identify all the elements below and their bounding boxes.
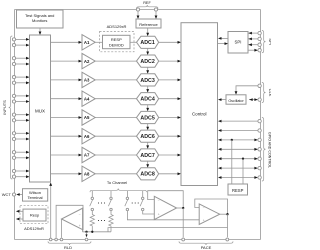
wire MUX to A7	[51, 154, 79, 156]
wire IN6P to MUX	[16, 132, 27, 134]
wire ADC7 to Control	[159, 154, 178, 156]
svg-text:ADC2: ADC2	[140, 59, 154, 65]
switch S1	[91, 197, 93, 199]
pin IN8N	[12, 175, 15, 178]
svg-text:WCT: WCT	[2, 192, 12, 197]
pin SPI3	[258, 43, 261, 46]
svg-text:Oscillator: Oscillator	[228, 99, 244, 103]
wire ADC1 to Control	[159, 41, 178, 43]
wire IN3P to MUX	[16, 76, 27, 78]
pin IN7N	[12, 156, 15, 159]
svg-text:Terminal: Terminal	[27, 195, 42, 200]
wire ADC3 to ADC4 (ref chain)	[147, 86, 149, 89]
op-amp A5	[82, 110, 95, 125]
svg-text:A1: A1	[84, 40, 90, 45]
pin IN4N	[12, 100, 15, 103]
adc ADC4	[137, 93, 159, 105]
svg-text:A6: A6	[84, 134, 90, 139]
svg-text:ADC5: ADC5	[140, 115, 154, 121]
wire ADC5 to Control	[159, 117, 178, 119]
wire SPI pin 3	[248, 44, 258, 46]
wire A8 to ADC8	[95, 173, 136, 175]
pin IN2N	[12, 62, 15, 65]
wire A5 to ADC5	[95, 117, 136, 119]
wire MUX to A1	[51, 41, 79, 43]
svg-text:ADC4: ADC4	[140, 97, 154, 103]
wire IN6N to MUX	[16, 138, 27, 140]
wire SPI pin 1	[248, 32, 258, 34]
brace INPUTS	[9, 36, 13, 179]
pin IN4P	[12, 94, 15, 97]
svg-text:Reference: Reference	[139, 22, 158, 27]
wire GPIO row 7	[221, 177, 255, 179]
wire SPI to Control	[221, 37, 228, 39]
wire IN8N to MUX	[16, 176, 27, 178]
pin IN5N	[12, 119, 15, 122]
wire A4 to ADC4	[95, 98, 136, 100]
svg-text:A8: A8	[84, 172, 90, 177]
pin IN2P	[12, 57, 15, 60]
wire GPIO row 6	[221, 167, 255, 169]
svg-text:RESP: RESP	[111, 37, 122, 42]
svg-text:REF: REF	[143, 1, 151, 5]
wire RLD inv node to pin	[86, 232, 88, 235]
svg-text:GPIO AND CONTROL: GPIO AND CONTROL	[268, 132, 271, 168]
wire RLD network to amp input	[82, 208, 84, 232]
wire PACE2 output	[220, 213, 228, 215]
wire RLD output	[61, 219, 63, 238]
adc ADC3	[137, 74, 159, 86]
wire MUX to A6	[51, 135, 79, 137]
wire S2 to R2	[110, 211, 112, 214]
adc ADC5	[137, 111, 159, 123]
brace RLD	[48, 241, 91, 245]
dots between S3 and S4	[132, 202, 133, 203]
wire IN4P to MUX	[16, 95, 27, 97]
control block	[181, 23, 218, 186]
svg-text:INPUTS: INPUTS	[2, 100, 7, 115]
wire SPI pin 2	[248, 38, 258, 40]
wire ADC6 to Control	[159, 135, 178, 137]
pin SPI4	[258, 49, 261, 52]
svg-text:−: −	[79, 213, 81, 217]
pin GPIO5	[258, 157, 261, 160]
wire MUX to A4	[51, 98, 79, 100]
svg-text:ADC3: ADC3	[140, 78, 154, 84]
pin IN1N	[12, 44, 15, 47]
svg-text:+: +	[203, 219, 205, 223]
wire ADC8 to Control	[159, 173, 178, 175]
pin SPI2	[258, 37, 261, 40]
wire S3 to PACE2 +	[127, 211, 199, 220]
op-amp A6	[82, 129, 95, 144]
wire A6 to ADC6	[95, 135, 136, 137]
wire PACE1 out to pin	[182, 208, 184, 237]
svg-text:A7: A7	[84, 153, 90, 158]
junction on GPIO row 3	[231, 139, 233, 141]
svg-text:PACE: PACE	[201, 245, 212, 250]
pin CLKIN	[258, 84, 261, 87]
op-amp A8	[82, 166, 95, 181]
wire Control to SPI	[218, 43, 226, 45]
pin GPIO6	[258, 166, 261, 169]
pin REFP	[136, 8, 139, 11]
wire ADC4 to Control	[159, 98, 178, 100]
dashed box ADS129xR (resp)	[20, 206, 48, 224]
wire test signals to MUX	[39, 28, 41, 32]
svg-text:Monitors: Monitors	[32, 18, 47, 23]
pin IN1P	[12, 38, 15, 41]
svg-text:A5: A5	[84, 115, 90, 120]
wire RLD network to pace bus	[108, 228, 228, 232]
wire Resp out P	[19, 210, 23, 212]
wire R2 to RLD node	[110, 227, 112, 232]
wire MUX to A5	[51, 117, 79, 119]
resistor R1	[90, 214, 94, 228]
wire IN7P to MUX	[16, 151, 27, 153]
wire A2 to ADC2	[95, 60, 136, 62]
adc ADC8	[137, 168, 159, 180]
mux MUX	[30, 35, 51, 182]
svg-text:Resp: Resp	[30, 213, 40, 218]
wire GPIO row 2	[221, 130, 258, 132]
brace GPIO	[262, 118, 266, 182]
pin IN3P	[12, 76, 15, 79]
wire GPIO row 3	[221, 139, 255, 141]
op-amp A2	[82, 53, 95, 68]
svg-text:A2: A2	[84, 59, 90, 64]
resp block (bottom-left)	[23, 209, 46, 221]
wire A1 to RESP DEMOD	[95, 41, 102, 43]
junction RLD inv node	[85, 231, 87, 233]
svg-text:Control: Control	[192, 111, 207, 116]
resp block (right)	[228, 184, 248, 195]
wire REFN to Reference	[155, 11, 157, 15]
pin IN5P	[12, 113, 15, 116]
op-amp A7	[82, 147, 95, 162]
wire A3 to ADC3	[95, 79, 136, 81]
pin GPIO4	[258, 148, 261, 151]
wire GPIO row 4	[221, 148, 255, 150]
op-amp PACE1	[154, 196, 176, 219]
wire IN4N to MUX	[16, 101, 27, 103]
pin REFN	[154, 8, 157, 11]
resistor R2	[109, 214, 113, 228]
pin IN3N	[12, 81, 15, 84]
svg-text:DEMOD: DEMOD	[109, 42, 124, 47]
svg-text:+: +	[79, 224, 81, 228]
op-amp A1	[82, 35, 95, 50]
svg-text:+: +	[158, 213, 160, 217]
wire A7 to ADC7	[95, 154, 136, 156]
svg-text:A4: A4	[84, 96, 90, 101]
svg-text:ADC7: ADC7	[140, 153, 154, 159]
op-amp PACE2	[199, 204, 220, 225]
wire IN3N to MUX	[16, 82, 27, 84]
oscillator block	[226, 95, 246, 104]
spi block	[228, 32, 248, 54]
pin RLD1	[49, 238, 52, 241]
wire PACE1 loop	[148, 191, 184, 208]
wire IN1N to MUX	[16, 44, 27, 46]
wire Oscillator to Control	[221, 99, 226, 101]
wire RLD network bus	[83, 231, 112, 233]
svg-text:RESP: RESP	[232, 188, 244, 193]
junction R1 bottom	[91, 231, 93, 233]
pin GPIO2	[258, 129, 261, 132]
wire MUX to A8	[51, 173, 79, 175]
wire MUX to A2	[51, 60, 79, 62]
wire Resp out N	[19, 218, 23, 220]
wire PACE2 out to pin	[227, 214, 229, 237]
switch S3	[126, 197, 128, 199]
svg-text:SPI: SPI	[235, 40, 242, 45]
pin SPI1	[258, 31, 261, 34]
svg-text:A3: A3	[84, 78, 90, 83]
dashed box ADS129xR (resp demod)	[100, 32, 135, 52]
svg-text:SPI: SPI	[268, 38, 271, 44]
svg-text:ADS129xR: ADS129xR	[107, 24, 127, 29]
wire ADC4 to ADC5 (ref chain)	[147, 105, 149, 108]
pin GPIO1	[258, 119, 261, 122]
dots between S1 and S2	[98, 202, 99, 203]
brace CLK	[262, 83, 266, 103]
pin PACE1	[182, 238, 185, 241]
junction PACE1 out	[182, 207, 184, 209]
junction PACE2 out	[226, 213, 228, 215]
wire ADC7 to ADC8 (ref chain)	[147, 161, 149, 164]
wilson terminal block	[23, 189, 48, 201]
switch S4	[142, 197, 144, 199]
adc ADC7	[137, 149, 159, 161]
wire SPI pin 4 (DOUT)	[248, 49, 255, 51]
wire IN1P to MUX	[16, 38, 27, 40]
pin IN6P	[12, 132, 15, 135]
wire IN5N to MUX	[16, 119, 27, 121]
svg-text:−: −	[158, 199, 160, 203]
pin RLDOUT	[60, 238, 63, 241]
wire ADC1 to ADC2 (ref chain)	[147, 48, 149, 51]
wire GPIO row 5 to RESP	[242, 159, 244, 184]
wire ADC3 to Control	[159, 79, 178, 81]
wire RLD loop	[56, 205, 83, 238]
wire S1 to R1	[91, 211, 93, 214]
wire ADC6 to ADC7 (ref chain)	[147, 142, 149, 145]
pin GPIO7	[258, 176, 261, 179]
pin IN6N	[12, 137, 15, 140]
wire switch S1 stub	[91, 191, 93, 197]
brace SPI	[262, 31, 266, 53]
wire GPIO row 3 to RESP	[231, 140, 233, 184]
wire IN5P to MUX	[16, 114, 27, 116]
wire GPIO row 1	[221, 120, 258, 122]
wire switch S2 stub	[110, 191, 112, 197]
pin RLD2	[55, 238, 58, 241]
wire MUX to A3	[51, 79, 79, 81]
adc ADC1	[137, 36, 159, 48]
switch S2	[110, 197, 112, 199]
op-amp RLD	[62, 208, 84, 230]
wire CLKIN to Oscillator	[236, 86, 258, 92]
svg-text:MUX: MUX	[35, 108, 45, 113]
wire PACE2 loop	[195, 199, 228, 214]
svg-text:ADC6: ADC6	[140, 134, 154, 140]
chip boundary rail (pin frame)	[15, 9, 261, 11]
resp demod block	[103, 35, 131, 48]
wire S4 to PACE1 +	[143, 211, 155, 214]
wire switch S4 stub	[142, 191, 144, 197]
wire IN8P to MUX	[16, 170, 27, 172]
svg-text:RLD: RLD	[64, 245, 72, 250]
svg-text:To Channel: To Channel	[107, 180, 127, 185]
reference block	[136, 19, 161, 28]
svg-text:ADS129xR: ADS129xR	[24, 226, 44, 231]
wire IN2N to MUX	[16, 63, 27, 65]
test signals and monitors block	[17, 10, 64, 28]
wire GPIO row 5	[221, 158, 255, 160]
pin IN7P	[12, 151, 15, 154]
wire Reference to ADC1	[147, 28, 149, 33]
wire ADC5 to ADC6 (ref chain)	[147, 124, 149, 127]
wire PACE1 output	[177, 207, 184, 209]
brace PACE	[179, 241, 233, 245]
pin IN8P	[12, 169, 15, 172]
wire R1 to RLD node	[91, 227, 93, 232]
svg-text:ADC1: ADC1	[140, 40, 154, 46]
wire IN2P to MUX	[16, 57, 27, 59]
junction on GPIO row 5	[242, 158, 244, 160]
pin PACE2	[226, 238, 229, 241]
brace To Channel	[90, 189, 147, 193]
wire RLD feedback to MUX	[50, 186, 52, 239]
svg-text:ADC8: ADC8	[140, 172, 154, 178]
dots between R1 and R2	[98, 220, 99, 221]
wire ADC2 to ADC3 (ref chain)	[147, 67, 149, 70]
wire Wilson Terminal to WCT	[19, 194, 22, 196]
adc ADC6	[137, 130, 159, 142]
op-amp A4	[82, 91, 95, 106]
wire REFP to Reference	[137, 11, 139, 15]
wire RESP DEMOD to ADC1	[130, 41, 137, 43]
pin WCT	[12, 193, 15, 196]
wire IN7N to MUX	[16, 157, 27, 159]
pin RLDINV	[85, 238, 88, 241]
svg-text:−: −	[203, 206, 205, 210]
wire Oscillator to CLK pin	[249, 99, 255, 101]
brace REF	[137, 5, 159, 9]
op-amp A3	[82, 72, 95, 87]
pin CLK	[258, 98, 261, 101]
svg-text:CLK: CLK	[268, 89, 271, 97]
adc ADC2	[137, 55, 159, 67]
pin GPIO3	[258, 138, 261, 141]
wire switch S3 stub	[126, 191, 128, 197]
wire ADC2 to Control	[159, 60, 178, 62]
